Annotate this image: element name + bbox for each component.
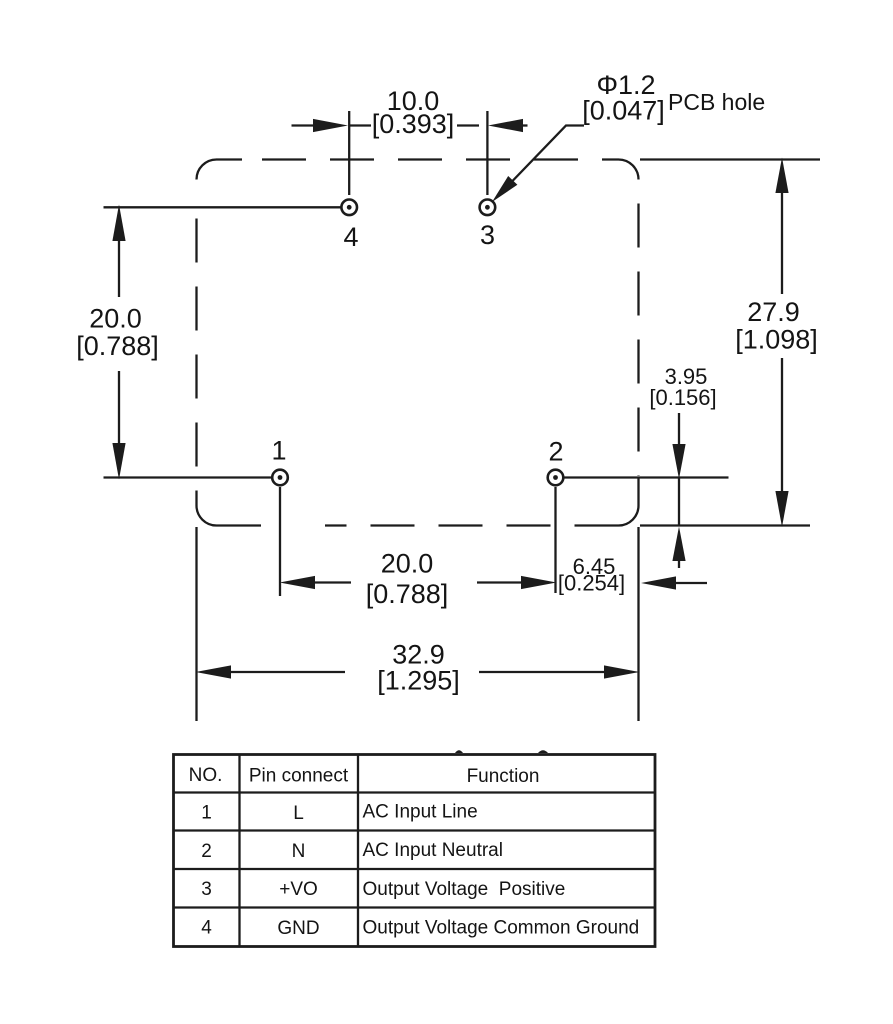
svg-text:Pin connect: Pin connect <box>249 766 349 787</box>
svg-text:AC Input Neutral: AC Input Neutral <box>363 840 503 861</box>
svg-text:20.0: 20.0 <box>381 549 434 579</box>
dimension 20.0 bottom left arrowhead <box>280 576 316 589</box>
pin table row divider 2 <box>174 868 656 870</box>
svg-text:2: 2 <box>201 841 212 862</box>
module outline bottom-left corner <box>197 506 262 526</box>
dimension 32.9 left extension line <box>195 527 197 721</box>
stray dash artifact left <box>455 750 463 753</box>
svg-text:1: 1 <box>271 436 286 466</box>
dimension 10.0 inner left stub <box>350 124 371 126</box>
dimension 10.0 left arrowhead <box>313 119 348 132</box>
dimension 10.0 right arrowhead <box>488 119 523 132</box>
pin table row divider 1 <box>174 829 656 831</box>
pin 4 vertical extension line <box>348 111 350 195</box>
dimension 20.0 bottom right arrowhead <box>521 576 557 589</box>
dimension 3.95 upper arrowhead <box>672 444 685 479</box>
module outline top-left corner <box>197 160 243 180</box>
dimension 6.45 right arrowhead <box>641 576 676 589</box>
dimension 27.9 top arrowhead <box>775 158 788 194</box>
svg-text:[0.393]: [0.393] <box>372 109 455 139</box>
dimension 3.95 middle shaft <box>678 478 680 526</box>
dimension 27.9 lower shaft <box>781 358 783 495</box>
svg-text:NO.: NO. <box>189 765 223 786</box>
svg-text:AC Input Line: AC Input Line <box>363 802 478 823</box>
svg-text:4: 4 <box>201 918 212 939</box>
svg-text:[0.254]: [0.254] <box>558 571 625 596</box>
pin 3 hole <box>480 200 496 216</box>
dimension 27.9 bottom extension line <box>640 524 810 526</box>
dimension 10.0 left shaft <box>292 124 320 126</box>
pin 4 hole <box>341 200 357 216</box>
pin 1 lower extension line <box>279 487 281 596</box>
stray dash artifact right <box>538 750 548 753</box>
PCB hole leader line <box>497 126 584 198</box>
module outline top-right corner <box>619 160 639 180</box>
dimension 20.0 bottom left shaft <box>312 581 351 583</box>
pin table column divider 1 <box>238 755 240 947</box>
dimension 20.0 left bottom arrowhead <box>112 443 125 480</box>
dimension 32.9 right extension line <box>637 527 639 721</box>
svg-text:3: 3 <box>480 220 495 250</box>
PCB hole leader arrowhead <box>492 176 517 202</box>
pin table outer border <box>174 755 656 947</box>
pin 1 horizontal extension line <box>104 476 272 478</box>
dimension 3.95 lower arrowhead <box>672 527 685 562</box>
dimension 32.9 left shaft <box>228 671 345 673</box>
svg-text:Output Voltage Positive: Output Voltage Positive <box>363 879 566 900</box>
svg-text:3: 3 <box>201 879 212 900</box>
dimension 27.9 bottom arrowhead <box>775 491 788 527</box>
pin 1 hole <box>272 470 288 486</box>
svg-text:L: L <box>293 803 304 824</box>
svg-text:[0.788]: [0.788] <box>366 579 449 609</box>
svg-text:4: 4 <box>343 222 358 252</box>
module outline right edge (dashed) <box>637 204 639 477</box>
dimension 3.95 lower shaft <box>678 559 680 568</box>
dimension 20.0 bottom right shaft <box>477 581 525 583</box>
svg-text:[0.788]: [0.788] <box>76 331 159 361</box>
svg-text:[1.295]: [1.295] <box>377 666 460 696</box>
svg-text:GND: GND <box>277 918 319 939</box>
svg-text:Output Voltage Common Ground: Output Voltage Common Ground <box>363 918 640 939</box>
dimension 27.9 upper shaft <box>781 190 783 294</box>
svg-text:20.0: 20.0 <box>89 304 142 334</box>
dimension 10.0 inner right stub <box>457 124 479 126</box>
svg-text:+VO: +VO <box>279 879 318 900</box>
dimension 32.9 right shaft <box>479 671 607 673</box>
pin table column divider 2 <box>357 755 359 947</box>
svg-text:1: 1 <box>201 803 212 824</box>
svg-text:PCB hole: PCB hole <box>668 89 765 115</box>
dimension 3.95 upper shaft <box>678 413 680 448</box>
pin table row divider 3 <box>174 906 656 908</box>
dimension 32.9 right arrowhead <box>604 665 640 678</box>
pin 4 horizontal extension line <box>104 206 342 208</box>
dimension 27.9 top extension line <box>640 158 820 160</box>
module outline bottom edge (dashed) <box>325 524 619 526</box>
module outline left edge (dashed) <box>195 219 197 506</box>
pin 2 lower extension line <box>554 487 556 593</box>
svg-text:Function: Function <box>467 766 540 787</box>
dimension 6.45 right shaft <box>674 582 707 584</box>
svg-text:[1.098]: [1.098] <box>735 325 818 355</box>
pin 2 horizontal extension line <box>564 476 729 478</box>
dimension 32.9 left arrowhead <box>196 665 232 678</box>
svg-text:27.9: 27.9 <box>747 297 800 327</box>
svg-text:[0.047]: [0.047] <box>582 96 665 126</box>
module outline top edge (dashed) <box>262 158 619 160</box>
dimension 20.0 left upper shaft <box>118 238 120 297</box>
pin table header row divider <box>174 791 656 793</box>
svg-text:N: N <box>292 841 306 862</box>
dimension 10.0 right shaft <box>519 124 528 126</box>
module outline bottom-right corner <box>619 478 639 526</box>
dimension 20.0 left top arrowhead <box>112 205 125 242</box>
pin 2 hole <box>548 470 564 486</box>
svg-text:2: 2 <box>548 437 563 467</box>
pin 3 vertical extension line <box>486 111 488 195</box>
dimension 20.0 left lower shaft <box>118 371 120 447</box>
svg-text:[0.156]: [0.156] <box>649 385 716 410</box>
